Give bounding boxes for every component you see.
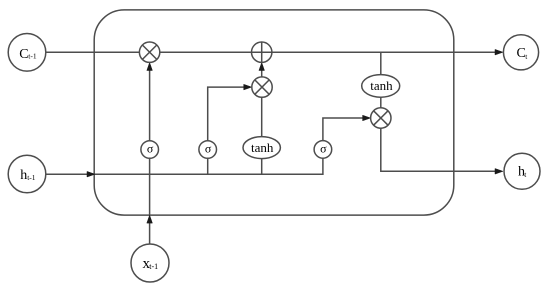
gate mult3 (output multiply) (371, 108, 391, 128)
svg-text:tanh: tanh (251, 140, 274, 155)
svg-text:t-1: t-1 (28, 52, 37, 61)
wire: sigma1 to mult1 (forget gate arrow) (147, 63, 153, 141)
svg-text:h: h (20, 168, 27, 183)
wire: mult2 up into plus (arrow) (259, 63, 265, 78)
svg-text:t-1: t-1 (27, 173, 36, 182)
wire: h-line stub up to sigma2 (207, 158, 209, 174)
node C_t output circle (503, 35, 538, 70)
wire: C-line junction down to tanh2 (380, 52, 382, 74)
svg-text:C: C (19, 47, 28, 62)
wire: h-line stub up to tanh1 (261, 159, 263, 175)
wire: mult3 down then right to h_t output (arrow) (381, 128, 503, 174)
wire: C-line (cell state, top horizontal) (46, 49, 503, 55)
svg-text:σ: σ (205, 141, 212, 155)
gate mult2 (input multiply) (252, 77, 272, 97)
node x_{t-1} input circle (131, 244, 169, 282)
node h_t output circle (504, 153, 540, 189)
wire: x input vertical into cell bottom (147, 215, 153, 244)
svg-text:tanh: tanh (370, 78, 393, 93)
wire: sigma2 up and right into mult2 (208, 84, 252, 140)
gate sigma2 ellipse (199, 141, 217, 159)
wire: vertical from cell bottom through h-line to sigma1 (149, 158, 151, 215)
gate mult1 (forget multiply) (139, 42, 159, 62)
node C_{t-1} input circle (8, 34, 46, 72)
svg-text:σ: σ (147, 141, 154, 155)
gate sigma1 ellipse (141, 141, 159, 159)
gate tanh2 ellipse (362, 75, 400, 98)
LSTM cell boundary (rounded rectangle) (94, 10, 454, 215)
wire: sigma3 up and right into mult3 (arrow) (323, 115, 371, 140)
wire: tanh2 down to mult3 (380, 97, 382, 108)
wire: h-line (hidden state, lower horizontal) with arrow into cell (46, 158, 323, 177)
gate tanh1 ellipse (243, 137, 280, 159)
gate sigma3 ellipse (314, 141, 332, 159)
node h_{t-1} input circle (8, 155, 46, 193)
gate plus (cell state add) (252, 42, 272, 62)
svg-text:σ: σ (320, 141, 327, 155)
svg-text:t-1: t-1 (149, 262, 158, 271)
wire: tanh1 up to mult2 (261, 97, 263, 136)
